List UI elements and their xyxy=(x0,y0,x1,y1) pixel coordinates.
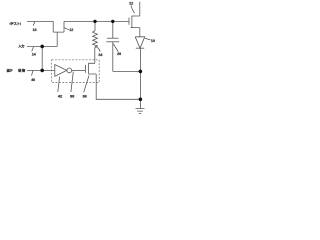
svg-text:38: 38 xyxy=(70,93,75,98)
svg-text:24: 24 xyxy=(98,53,102,57)
svg-text:36: 36 xyxy=(83,93,88,98)
svg-text:40: 40 xyxy=(31,78,35,82)
svg-text:制御: 制御 xyxy=(18,67,26,72)
svg-text:入力: 入力 xyxy=(17,43,24,48)
svg-text:14: 14 xyxy=(32,52,36,56)
svg-text:16: 16 xyxy=(33,28,37,32)
svg-text:減少: 減少 xyxy=(7,67,13,72)
svg-text:(テスト): (テスト) xyxy=(10,20,21,25)
svg-text:22: 22 xyxy=(129,2,133,6)
svg-text:10: 10 xyxy=(151,39,155,43)
svg-text:42: 42 xyxy=(58,93,63,98)
svg-text:12: 12 xyxy=(69,28,73,32)
svg-text:26: 26 xyxy=(117,52,121,56)
